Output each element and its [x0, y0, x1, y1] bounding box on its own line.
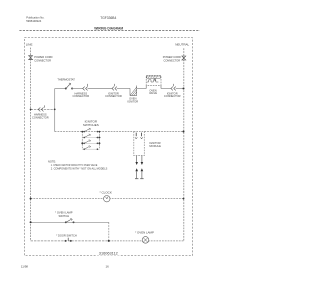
harness connector lower symbol: [38, 105, 44, 111]
svg-text:1. CHECK IGNITOR CIRCUIT TO O: 1. CHECK IGNITOR CIRCUIT TO OVEN VALVE: [51, 164, 98, 167]
ignitor connector 2 symbol: [171, 84, 176, 91]
ignitor switch 4: [82, 146, 99, 150]
electrode wire 2: [141, 156, 143, 163]
svg-text:Publication No.: Publication No.: [26, 16, 44, 20]
ignitor switch 2: [82, 134, 100, 138]
junction branch jog: [54, 109, 56, 111]
svg-text:316063112: 316063112: [99, 252, 118, 256]
wire main bus segment 4: [117, 88, 130, 90]
svg-text:5995448224: 5995448224: [26, 19, 41, 23]
svg-text:TGF336B4: TGF336B4: [100, 16, 116, 20]
electrode arrow down 1: [135, 162, 138, 165]
ignitor connector 1 symbol: [112, 84, 117, 91]
junction L1 jog: [30, 109, 32, 111]
wire jog L1 to branch: [31, 108, 55, 110]
svg-text:CONNECTOR: CONNECTOR: [163, 58, 180, 62]
svg-text:NOTE:: NOTE:: [48, 160, 56, 164]
svg-text:CONNECTOR: CONNECTOR: [164, 94, 181, 98]
wire neutral vertical: [183, 48, 185, 241]
power cord connector right symbol: [182, 56, 186, 60]
electrode stem 1: [136, 171, 138, 178]
junction ignitor line neutral: [183, 131, 185, 133]
wire main bus segment 5: [137, 88, 147, 90]
wire main bus segment 1: [55, 88, 66, 90]
electrode wire 1: [136, 156, 138, 163]
junction clock neutral: [183, 198, 185, 200]
svg-text:SWITCHES: SWITCHES: [83, 123, 99, 127]
svg-text:MODULE: MODULE: [149, 144, 161, 148]
electrode base 2: [140, 178, 143, 180]
svg-text:THERMOSTAT: THERMOSTAT: [57, 78, 75, 82]
ignitor module pin 2: [141, 133, 143, 139]
wire main bus segment 2: [72, 88, 83, 90]
svg-text:* CLOCK: * CLOCK: [100, 190, 112, 194]
oven lamp symbol: [142, 237, 149, 244]
svg-text:* OVEN LAMP: * OVEN LAMP: [135, 230, 154, 234]
wire main bus segment 3: [88, 88, 112, 90]
ignitor module pin 1: [135, 133, 137, 139]
svg-text:CONNECTOR: CONNECTOR: [34, 59, 51, 63]
electrode arrow up 1: [135, 168, 138, 171]
harness connector upper symbol: [83, 84, 88, 91]
svg-text:POWER CORD: POWER CORD: [34, 55, 52, 59]
door switch: [65, 238, 72, 242]
svg-text:* DOOR SWITCH: * DOOR SWITCH: [56, 234, 77, 238]
wire oven lamp line: [109, 240, 184, 242]
svg-text:IGNITOR: IGNITOR: [127, 99, 138, 103]
svg-text:* OVEN LAMP: * OVEN LAMP: [55, 210, 73, 214]
svg-text:VALVE: VALVE: [149, 91, 157, 95]
wire main bus segment 7: [176, 88, 184, 90]
wire L1 vertical: [30, 48, 32, 241]
wire door switch line: [31, 240, 109, 242]
svg-text:SWITCH: SWITCH: [58, 214, 69, 218]
wire main bus segment 6: [161, 88, 171, 90]
oven valve box: [146, 76, 161, 89]
ignitor switch 3: [82, 140, 101, 144]
svg-text:WIRING DIAGRAM: WIRING DIAGRAM: [94, 26, 123, 30]
junction ladder right top: [99, 131, 101, 133]
ignitor module box: [134, 132, 145, 156]
svg-text:NEUTRAL: NEUTRAL: [175, 43, 189, 47]
junction clock L1: [30, 198, 32, 200]
svg-text:CONNECTOR: CONNECTOR: [105, 94, 122, 98]
electrode stem 2: [141, 171, 143, 178]
electrode arrow up 2: [141, 168, 144, 171]
junction bus neutral: [183, 88, 185, 90]
svg-text:2. COMPONENTS WITH * NOT ON A: 2. COMPONENTS WITH * NOT ON ALL MODELS: [51, 167, 108, 170]
oven ignitor (hatched): [130, 86, 137, 96]
wire oven lamp switch line: [31, 221, 109, 223]
svg-text:LINE: LINE: [26, 43, 33, 47]
clock symbol: [104, 196, 110, 202]
wire clock line: [31, 198, 184, 200]
junction lamp line branch: [108, 240, 110, 242]
wire ignitor switch line right: [144, 131, 184, 133]
wire lamp branch vertical: [108, 222, 110, 241]
oven lamp switch: [65, 218, 74, 223]
svg-text:CONNECTOR: CONNECTOR: [32, 115, 49, 119]
svg-text:11/98: 11/98: [21, 264, 28, 268]
svg-text:16: 16: [106, 264, 110, 268]
junction lamp switch L1: [30, 221, 32, 223]
thermostat switch: [65, 83, 73, 89]
electrode base 1: [135, 178, 138, 180]
power cord connector left symbol: [29, 56, 33, 60]
wire ignitor switch line left: [55, 131, 134, 133]
ignitor switches ladder rails: [82, 132, 99, 150]
junction ladder left top: [81, 131, 83, 133]
electrode arrow down 2: [141, 162, 144, 165]
wire branch vertical: [54, 89, 56, 132]
ignitor switch 1: [84, 128, 98, 132]
svg-text:CONNECTOR: CONNECTOR: [72, 94, 89, 98]
